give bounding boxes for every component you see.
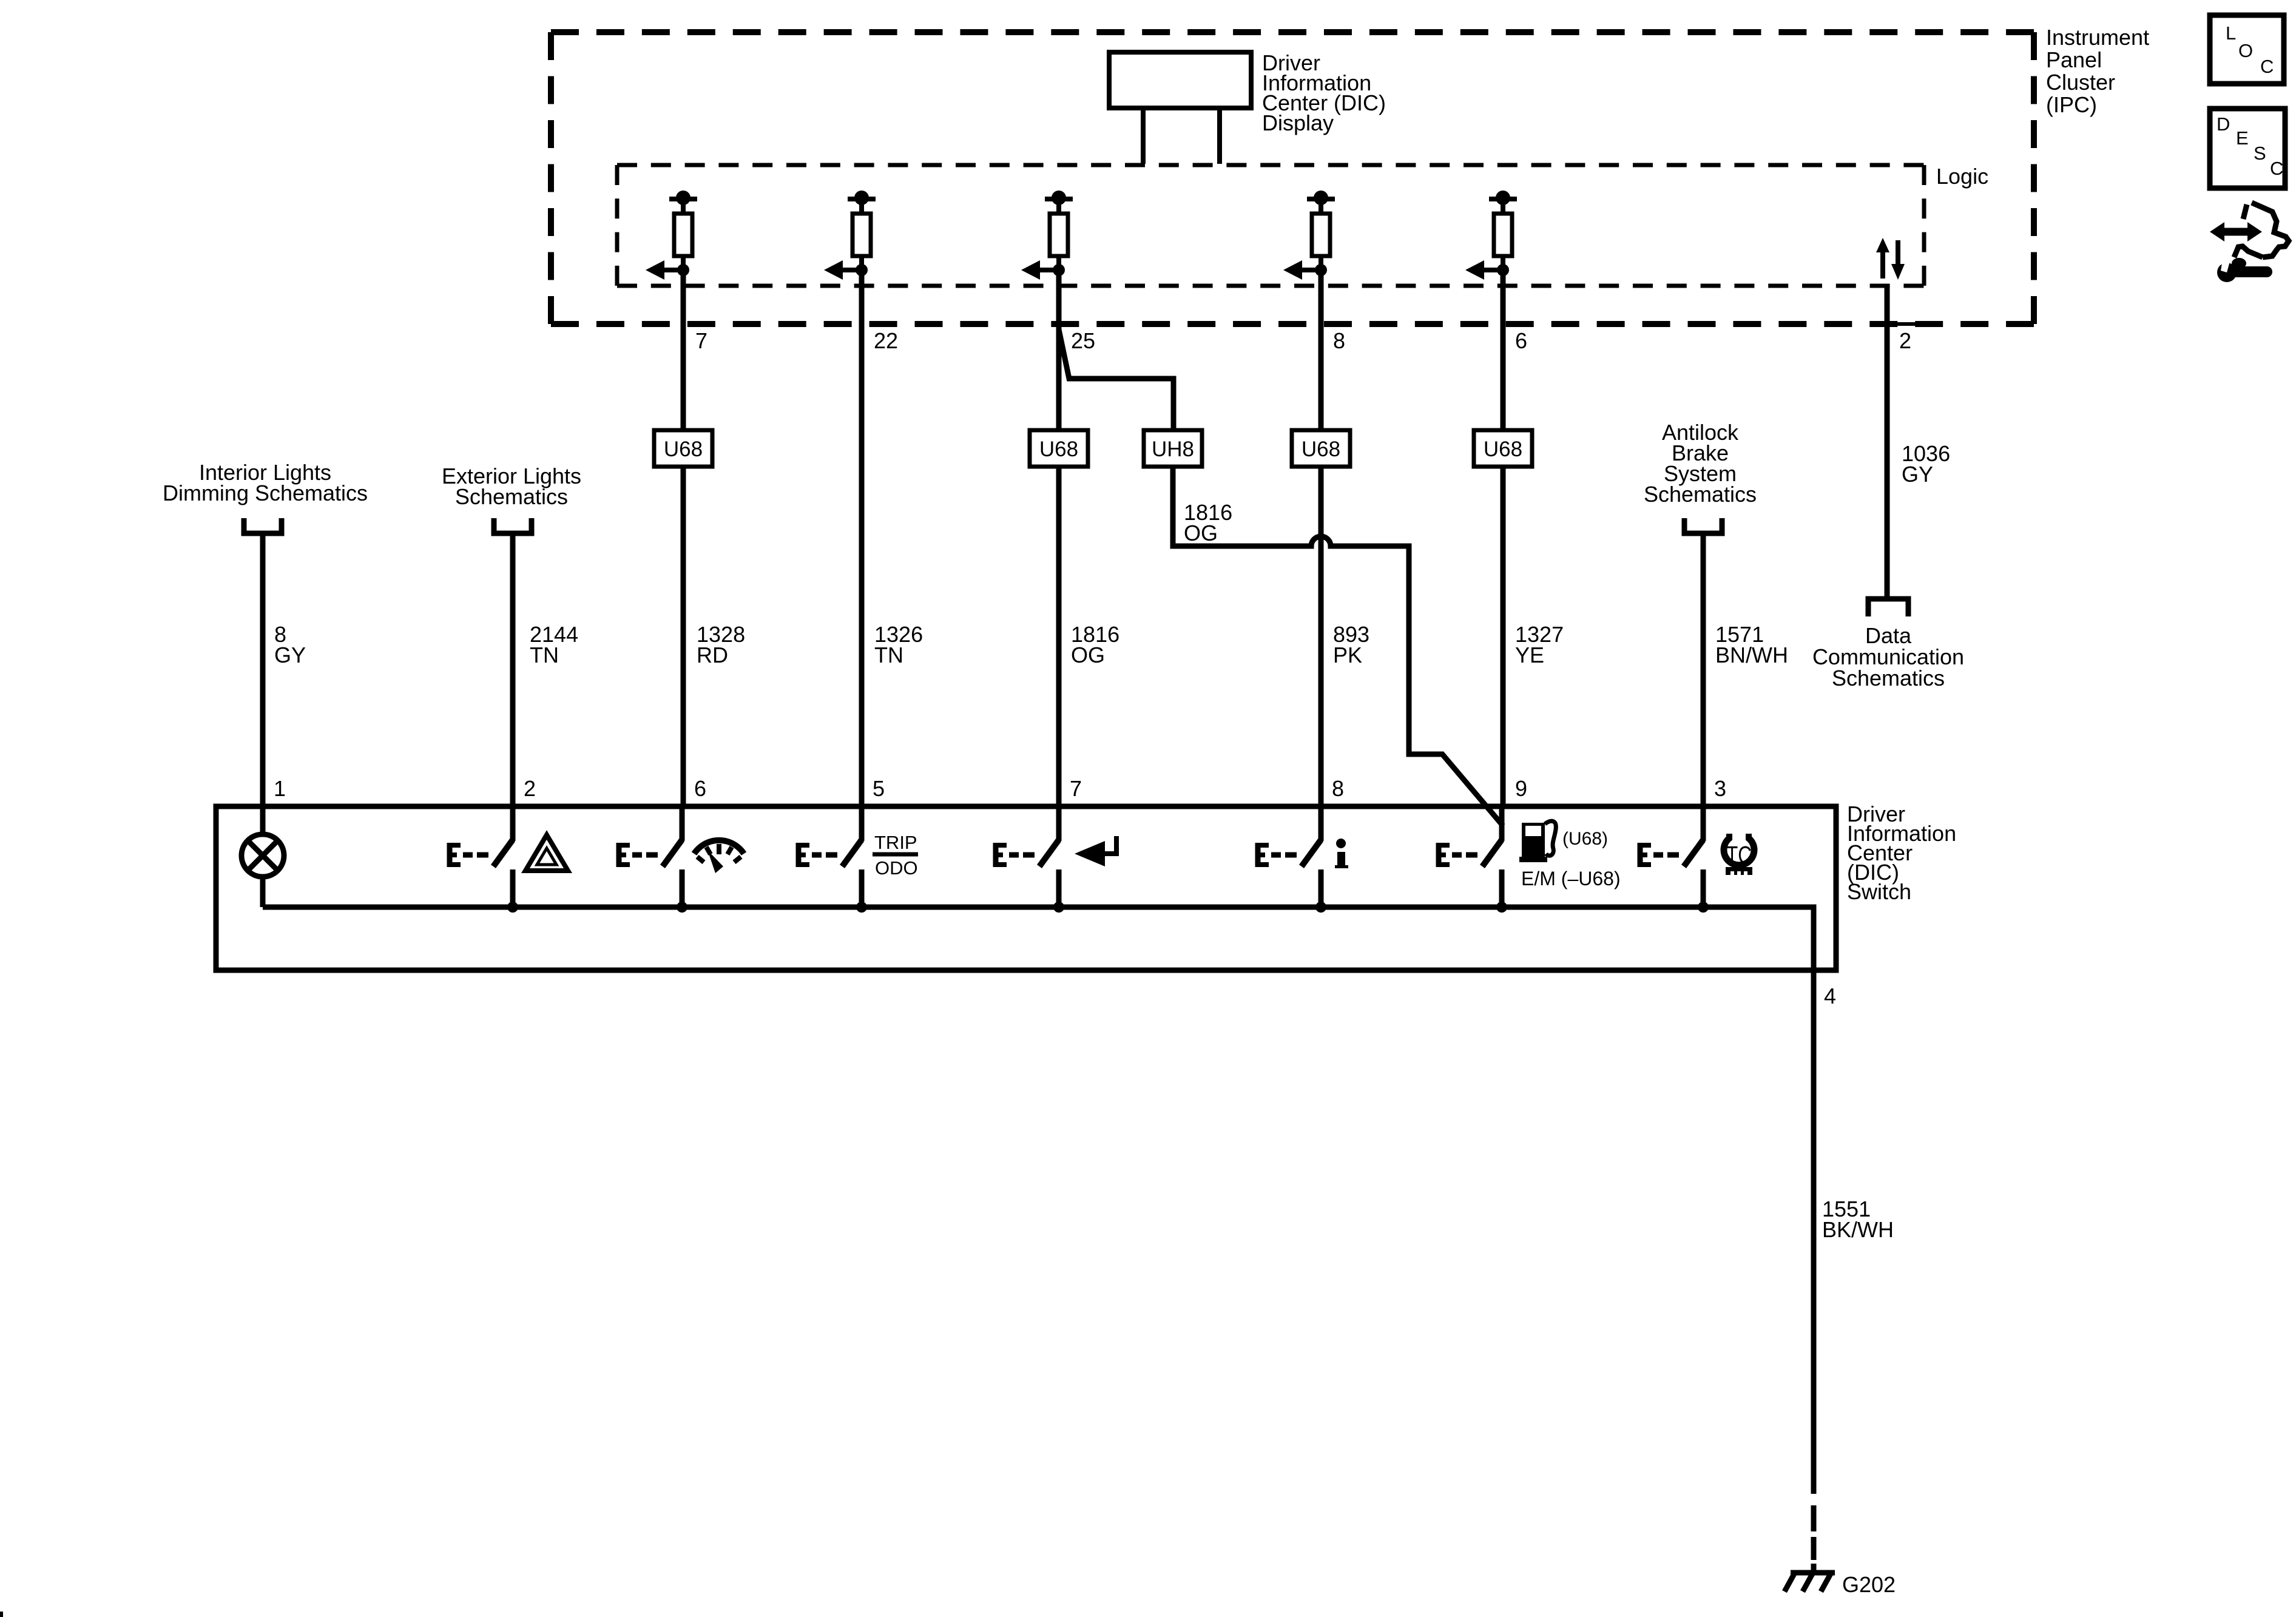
bottom stub to bus pin 6 [680,869,685,907]
svg-text:E/M (–U68): E/M (–U68) [1521,868,1621,890]
off-page bracket interior lights [244,518,282,533]
junction dot below R5 [1497,264,1509,276]
resistor R4 top bar [1307,197,1335,201]
switch blade pin 7 [1039,840,1059,866]
wire 1551 BK/WH down [1811,970,1817,1494]
wire below R5 [1501,256,1505,270]
svg-text:D: D [2217,113,2230,135]
wire col 2477 U68 to DIC pin 9 [1501,467,1506,806]
resistor R1 top bar [669,197,697,201]
branch diagonal from pin 25 wire to UH8 [1059,329,1173,430]
node dot top of R2 [854,191,869,205]
svg-text:Panel: Panel [2046,47,2102,72]
wire exterior lights to DIC pin 2 [510,533,516,806]
wire col 1126 to U68 [681,337,686,430]
wire from box top to contact pin 3 [1701,804,1706,841]
display leg left [1141,108,1146,164]
svg-text:9: 9 [1515,776,1527,801]
switch blade pin 3 [1684,840,1703,866]
svg-text:Schematics: Schematics [455,484,568,509]
switch E glyph pin 3 [1638,843,1643,867]
svg-text:YE: YE [1515,643,1544,667]
svg-text:GY: GY [274,643,306,667]
wire from box top to contact pin 9 [1499,804,1505,841]
node dot top of R4 [1314,191,1328,205]
hazard warning triangle icon [525,835,568,871]
bus junction dot pin 6 [677,902,687,913]
svg-text:C: C [2260,56,2274,77]
svg-text:25: 25 [1071,328,1095,353]
svg-text:BK/WH: BK/WH [1822,1217,1894,1242]
bus junction dot pin 5 [856,902,867,913]
svg-text:L: L [2226,22,2236,44]
wire IPC pin 7 column [681,270,686,337]
switch E glyph pin 9 [1436,843,1442,867]
svg-text:OG: OG [1071,643,1105,667]
switch dashes pin 6 [632,852,642,858]
wire ABS to DIC pin 3 [1701,533,1706,806]
bottom stub to bus pin 5 [859,869,865,907]
svg-text:8: 8 [1332,776,1344,801]
bottom stub to bus pin 8 [1319,869,1324,907]
svg-text:O: O [2238,40,2253,61]
wire stem R4 [1319,199,1323,214]
svg-text:Logic: Logic [1936,164,1988,189]
svg-text:7: 7 [1070,776,1082,801]
svg-text:Schematics: Schematics [1832,666,1945,690]
resistor R5 body [1494,214,1512,256]
bus junction dot pin 3 [1698,902,1709,913]
svg-text:Display: Display [1262,110,1334,135]
wire interior lights to DIC pin 1 [260,533,266,806]
bottom stub to bus pin 7 [1056,869,1062,907]
DESC legend box [2210,109,2285,188]
svg-text:TRIP: TRIP [874,832,917,853]
wire stem R1 [681,199,686,214]
bottom stub to bus pin 9 [1499,869,1505,907]
page artifact dot bottom-left [0,1612,3,1617]
svg-text:Switch: Switch [1847,879,1911,904]
svg-text:6: 6 [694,776,706,801]
illumination lamp [260,806,266,834]
svg-text:TN: TN [874,643,903,667]
switch E glyph pin 6 [616,843,622,867]
traction control tire icon [1724,837,1754,865]
switch blade pin 5 [842,840,862,866]
junction dot below R1 [677,264,689,276]
switch E glyph pin 8 [1255,843,1261,867]
switch dashes pin 2 [463,852,473,858]
svg-text:2: 2 [524,776,536,801]
bus junction dot pin 9 [1496,902,1507,913]
wire from box top to contact pin 7 [1056,804,1062,841]
svg-text:8: 8 [1333,328,1345,353]
LOC legend box [2210,15,2284,84]
wire IPC pin 22 column [859,270,865,337]
resistor R2 top bar [848,197,876,201]
internal common bus [263,907,1814,970]
off-page bracket data communication (opens down) [1868,599,1908,616]
switch dashes pin 7 [1009,852,1019,858]
Instrument Panel Cluster (IPC) dashed box [551,29,2034,35]
svg-text:TN: TN [530,643,559,667]
resistor R3 body [1050,214,1068,256]
switch dashes pin 8 [1271,852,1281,858]
switch blade pin 6 [663,840,682,866]
wire col 2477 to U68 [1501,337,1506,430]
wire stem R2 [859,199,864,214]
wire col 1126 U68 to DIC pin 6 [681,467,686,806]
node dot top of R3 [1052,191,1066,205]
Driver Information Center (DIC) Switch box [216,806,1836,970]
svg-text:5: 5 [873,776,885,801]
svg-text:Schematics: Schematics [1644,482,1757,507]
pin 2 tick at IPC box edge [1887,322,1922,326]
switch E glyph pin 2 [447,843,453,867]
svg-text:22: 22 [874,328,898,353]
node dot top of R1 [676,191,690,205]
switch dashes pin 5 [812,852,822,858]
wire from box top to contact pin 2 [510,804,516,841]
svg-text:6: 6 [1515,328,1527,353]
wire IPC pin 2 (serial data) [1885,286,1890,596]
resistor R4 body [1312,214,1330,256]
svg-text:Dimming Schematics: Dimming Schematics [163,481,368,505]
switch dashes pin 9 [1452,852,1462,858]
switch blade pin 8 [1302,840,1321,866]
off-page bracket exterior lights [494,518,532,533]
svg-text:G202: G202 [1842,1572,1896,1597]
svg-text:OG: OG [1184,521,1218,545]
wire stem R3 [1056,199,1061,214]
diagnostic icon double arrow [2222,228,2250,236]
gauge / dimming icon [694,840,744,854]
fuel pump icon [1522,823,1545,859]
arrow to logic for R1 [664,268,683,272]
wire from box top to contact pin 5 [859,804,865,841]
resistor R2 body [853,214,871,256]
connector option box UH8 at x=1933 [1144,430,1202,467]
svg-text:2: 2 [1899,328,1911,353]
wire col 1745 to U68 [1056,329,1062,430]
bottom stub to bus pin 3 [1701,869,1706,907]
data link up arrow [1880,251,1885,279]
resistor R3 top bar [1045,197,1073,201]
svg-text:(U68): (U68) [1562,829,1608,849]
svg-text:UH8: UH8 [1152,437,1194,461]
wire below R1 [681,256,686,270]
svg-text:C: C [2270,158,2283,179]
junction dot below R4 [1315,264,1327,276]
svg-text:U68: U68 [664,437,703,461]
wire lamp to bus [260,877,266,907]
wire below R4 [1319,256,1323,270]
dashed continuation [1811,1505,1817,1531]
wire below R2 [859,256,864,270]
switch dashes pin 3 [1653,852,1663,858]
wire stem R5 [1501,199,1505,214]
wire from box top to contact pin 8 [1319,804,1324,841]
display leg right [1217,108,1222,164]
arrow to logic for R5 [1484,268,1503,272]
svg-text:U68: U68 [1039,437,1078,461]
svg-text:Cluster: Cluster [2046,70,2115,95]
Logic dashed box inside IPC [617,163,1924,167]
wire col 1745 U68 to DIC pin 7 [1056,467,1062,806]
svg-text:U68: U68 [1302,437,1340,461]
junction dot below R2 [856,264,868,276]
bus junction dot pin 8 [1315,902,1326,913]
connector option box U68 at x=1126 [654,430,712,467]
bus junction dot pin 2 [507,902,518,913]
wire IPC pin 25 column [1056,270,1062,337]
data link down arrow [1896,240,1900,265]
arrow to logic for R2 [842,268,862,272]
resistor R1 body [674,214,692,256]
bottom stub to bus pin 2 [510,869,516,907]
svg-text:BN/WH: BN/WH [1715,643,1788,667]
wire col 1420 to DIC pin 5 [859,337,865,806]
svg-text:RD: RD [697,643,728,667]
wire from box top to contact pin 6 [680,804,685,841]
svg-text:PK: PK [1333,643,1362,667]
info i icon [1336,839,1346,848]
wire col 2177 U68 to DIC pin 8 [1319,467,1324,806]
arrow to logic for R3 [1039,268,1059,272]
bus junction dot pin 7 [1053,902,1064,913]
svg-text:U68: U68 [1484,437,1522,461]
off-page bracket ABS [1684,518,1722,533]
svg-text:GY: GY [1902,462,1933,487]
switch blade pin 2 [493,840,513,866]
svg-text:Instrument: Instrument [2046,25,2149,50]
connector option box U68 at x=2177 [1292,430,1350,467]
svg-text:1: 1 [274,776,286,801]
svg-text:S: S [2254,143,2266,164]
svg-text:ODO: ODO [875,857,918,879]
svg-text:E: E [2236,127,2249,149]
svg-text:4: 4 [1824,984,1836,1008]
Driver Information Center (DIC) Display box [1109,52,1251,108]
connector option box U68 at x=2477 [1474,430,1532,467]
svg-text:(IPC): (IPC) [2046,92,2097,117]
switch blade pin 9 [1482,840,1502,866]
resistor R5 top bar [1489,197,1517,201]
enter arrow icon [1103,836,1116,854]
connector option box U68 at x=1745 [1030,430,1088,467]
arrow to logic for R4 [1302,268,1321,272]
svg-text:TC: TC [1726,841,1752,869]
wire IPC pin 8 column [1319,270,1324,337]
ground symbol G202 [1791,1570,1835,1576]
wire IPC pin 6 column [1501,270,1506,337]
switch E glyph pin 5 [796,843,802,867]
diagnostic icon wrench [2217,263,2237,282]
switch E glyph pin 7 [993,843,999,867]
junction dot below R3 [1053,264,1065,276]
wire col 2177 to U68 [1319,337,1324,430]
node dot top of R5 [1496,191,1510,205]
wire below R3 [1056,256,1061,270]
svg-text:3: 3 [1714,776,1726,801]
diagnostic arrow-wrench icon: outline [2234,203,2289,257]
wire UH8 down, right with hop over 893 PK, down, to DIC pin 9 [1173,467,1503,826]
svg-text:7: 7 [695,328,707,353]
